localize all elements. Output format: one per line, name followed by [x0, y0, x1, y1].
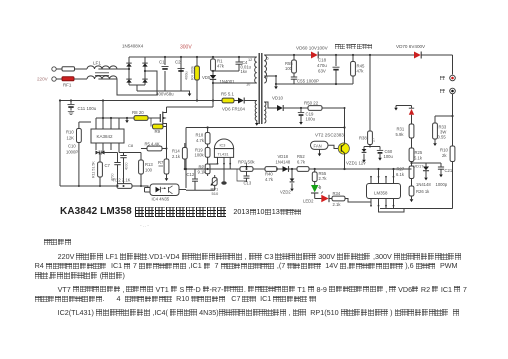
svg-text:R8 20: R8 20: [132, 110, 144, 115]
svg-text:R26 1k: R26 1k: [416, 189, 430, 194]
svg-text:R9: R9: [155, 129, 161, 134]
svg-text:C11 100u: C11 100u: [78, 106, 97, 111]
svg-text:400u: 400u: [185, 72, 189, 80]
svg-text:C55 1000P: C55 1000P: [297, 79, 319, 84]
svg-text:1000P: 1000P: [66, 150, 78, 155]
svg-text:IC4 4N35: IC4 4N35: [152, 197, 170, 202]
svg-text:6: 6: [267, 56, 269, 61]
svg-text:2.1k: 2.1k: [172, 154, 181, 159]
svg-text:LM358: LM358: [374, 191, 388, 196]
svg-text:IC3: IC3: [220, 144, 226, 148]
svg-text:1N4148: 1N4148: [276, 160, 291, 165]
svg-text:220V: 220V: [37, 77, 49, 82]
svg-text:12: 12: [248, 57, 252, 62]
svg-text:R50 22: R50 22: [304, 101, 319, 106]
svg-text:R14: R14: [172, 149, 180, 154]
svg-text:VD18: VD18: [278, 154, 289, 159]
svg-text:100u: 100u: [306, 117, 316, 122]
svg-text:R5 4.4K: R5 4.4K: [145, 142, 160, 147]
svg-text:1kv: 1kv: [241, 69, 248, 74]
svg-text:100: 100: [285, 66, 293, 71]
svg-text:R10: R10: [440, 148, 448, 153]
svg-text:100u: 100u: [384, 154, 394, 159]
svg-text:400V68u: 400V68u: [156, 92, 174, 97]
svg-text:R7: R7: [158, 160, 164, 165]
svg-text:4.7k: 4.7k: [196, 138, 205, 143]
svg-text:VD60 10V100V: VD60 10V100V: [296, 46, 329, 51]
svg-text:R18: R18: [196, 133, 204, 138]
svg-text:KA3842: KA3842: [97, 134, 114, 139]
svg-text:C1: C1: [159, 60, 165, 65]
svg-text:100: 100: [145, 168, 153, 173]
svg-text:FAN: FAN: [314, 143, 322, 148]
svg-text:R34: R34: [333, 191, 341, 196]
svg-text:VD5: VD5: [202, 75, 211, 80]
svg-text:R5 5.1: R5 5.1: [221, 92, 234, 97]
svg-text:C8: C8: [128, 143, 134, 148]
svg-text:5.9k: 5.9k: [396, 132, 405, 137]
svg-text:R11 51.5K: R11 51.5K: [92, 161, 96, 178]
svg-text:VD10: VD10: [272, 96, 284, 101]
svg-text:1000p: 1000p: [436, 182, 448, 187]
svg-text:C12: C12: [187, 172, 195, 177]
svg-text:100k: 100k: [195, 153, 205, 158]
svg-text:C7: C7: [105, 163, 111, 168]
svg-text:R12 2.1K: R12 2.1K: [113, 178, 131, 183]
svg-text:C10: C10: [68, 144, 76, 149]
svg-text:C13: C13: [244, 181, 252, 186]
svg-text:VZD2: VZD2: [280, 190, 291, 195]
svg-text:27: 27: [372, 138, 376, 142]
svg-text:VD17: VD17: [414, 164, 425, 169]
svg-text:6.1k: 6.1k: [396, 172, 405, 177]
svg-text:R38: R38: [359, 136, 367, 141]
svg-text:2.1k: 2.1k: [333, 202, 342, 207]
svg-text:LED2: LED2: [303, 199, 314, 204]
svg-text:LF1: LF1: [93, 61, 101, 66]
svg-text:12K: 12K: [67, 136, 75, 141]
svg-text:C2: C2: [175, 60, 181, 65]
svg-text:VD70 6V400V: VD70 6V400V: [396, 44, 426, 49]
svg-text:10: 10: [246, 82, 251, 87]
svg-text:R40: R40: [265, 172, 273, 177]
svg-text:2k: 2k: [442, 153, 447, 158]
svg-text:9.1k: 9.1k: [198, 170, 207, 175]
svg-text:6.7k: 6.7k: [297, 160, 306, 165]
svg-text:1N5408X4: 1N5408X4: [122, 44, 144, 49]
svg-text:R52: R52: [297, 154, 305, 159]
svg-text:TL431: TL431: [218, 152, 229, 157]
svg-text:4.7k: 4.7k: [265, 177, 274, 182]
svg-text:R10: R10: [66, 130, 74, 135]
svg-text:47k: 47k: [217, 64, 225, 69]
svg-text:8: 8: [266, 75, 268, 80]
svg-text:C18: C18: [318, 58, 327, 63]
svg-text:470u: 470u: [317, 63, 327, 68]
svg-text:R13: R13: [145, 162, 153, 167]
svg-text:R31: R31: [397, 127, 405, 132]
svg-text:R25: R25: [415, 150, 423, 155]
svg-text:VT2 2SC2383: VT2 2SC2383: [315, 133, 344, 138]
svg-text:C21: C21: [445, 168, 453, 173]
svg-text:63V: 63V: [318, 69, 326, 74]
svg-text:VD6 FR104: VD6 FR104: [222, 107, 245, 112]
svg-text:510: 510: [212, 191, 219, 196]
svg-text:VZD1 12v: VZD1 12v: [346, 161, 366, 166]
svg-text:300V: 300V: [180, 45, 192, 51]
svg-text:4000: 4000: [125, 162, 129, 170]
svg-text:R4 360k: R4 360k: [191, 66, 195, 80]
svg-text:0.55: 0.55: [438, 135, 447, 140]
svg-text:5.1k: 5.1k: [414, 156, 423, 161]
svg-text:RF1: RF1: [63, 83, 72, 88]
svg-text:2.7k: 2.7k: [319, 176, 328, 181]
svg-text:47k: 47k: [357, 69, 365, 74]
svg-text:1N4148: 1N4148: [416, 182, 431, 187]
